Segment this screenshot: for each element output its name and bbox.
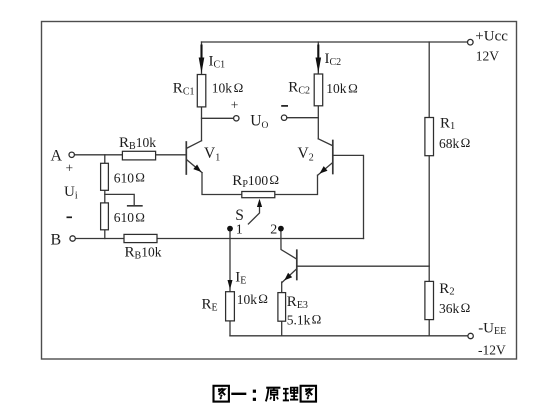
svg-text:610Ω: 610Ω [114,209,145,225]
svg-text:-12V: -12V [478,343,506,358]
svg-text:68kΩ: 68kΩ [439,135,470,151]
svg-text:+: + [66,161,74,176]
svg-text:610Ω: 610Ω [114,170,145,186]
svg-text:5.1kΩ: 5.1kΩ [287,312,321,328]
svg-text:RB10k: RB10k [125,245,162,262]
svg-text:36kΩ: 36kΩ [439,300,470,316]
svg-text:10kΩ: 10kΩ [326,80,358,96]
svg-text:+: + [231,98,239,113]
svg-text:2: 2 [270,223,277,238]
svg-text:10kΩ: 10kΩ [237,291,268,307]
svg-text:A: A [51,147,63,164]
svg-text:RB10k: RB10k [119,135,156,152]
svg-text:+Ucc: +Ucc [475,28,508,44]
svg-text:1: 1 [236,223,243,238]
svg-text:S: S [235,207,244,224]
svg-text:10kΩ: 10kΩ [212,80,244,96]
svg-text:12V: 12V [476,48,500,63]
svg-text:B: B [51,231,62,248]
